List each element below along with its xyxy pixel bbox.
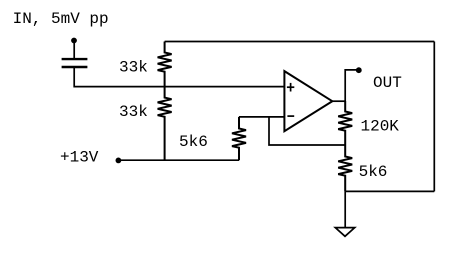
resistor R4 (120K) <box>338 101 352 145</box>
wire: R3 top to U1 -input <box>239 116 284 118</box>
svg-text:+13V: +13V <box>60 148 99 166</box>
node +13V terminal dot <box>116 158 122 164</box>
svg-text:5k6: 5k6 <box>179 133 208 151</box>
value label 120K (R4) <box>361 117 400 135</box>
svg-text:120K: 120K <box>361 117 400 135</box>
wire: -input node to feedback tap <box>269 117 345 145</box>
op-amp U1 noninverting input marker (+) <box>287 83 294 92</box>
wire: bottom node to ground <box>344 191 346 227</box>
value label 33k (R1) <box>119 58 148 76</box>
svg-text:OUT: OUT <box>373 74 402 92</box>
capacitor C1 <box>62 59 88 67</box>
svg-text:33k: 33k <box>119 58 148 76</box>
wire: output node riser to OUT <box>345 70 359 101</box>
svg-text:33k: 33k <box>119 103 148 121</box>
wire: feedback loop bottom rail <box>345 190 434 192</box>
node IN terminal dot <box>71 38 77 44</box>
resistor R2 (33k bottom) <box>158 87 172 161</box>
wire: feedback loop top rail <box>165 41 435 43</box>
value label 5k6 (R5) <box>359 163 388 181</box>
wire: U1 output stub <box>332 100 345 102</box>
wire: feedback loop right rail <box>433 42 435 192</box>
svg-text:5k6: 5k6 <box>359 163 388 181</box>
wire: +13V dot to R3 bottom <box>118 159 239 161</box>
resistor R1 (33k top) <box>158 42 172 87</box>
node OUT terminal dot <box>356 67 362 73</box>
wire: IN dot to C1 top plate <box>73 40 75 58</box>
value label 5k6 (R3) <box>179 133 208 151</box>
value label 33k (R2) <box>119 103 148 121</box>
ground <box>335 228 354 237</box>
op-amp U1 inverting input marker (-) <box>287 115 294 117</box>
node +13V label <box>60 148 99 166</box>
resistor R5 (5k6 right) <box>338 145 352 191</box>
svg-text:IN, 5mV pp: IN, 5mV pp <box>13 10 109 28</box>
op-amp U1 <box>284 71 332 131</box>
resistor R3 (5k6 left) <box>232 117 246 160</box>
node IN label <box>13 10 109 28</box>
node OUT label <box>373 74 402 92</box>
wire: C1 bottom plate to U1 +input <box>74 67 284 87</box>
